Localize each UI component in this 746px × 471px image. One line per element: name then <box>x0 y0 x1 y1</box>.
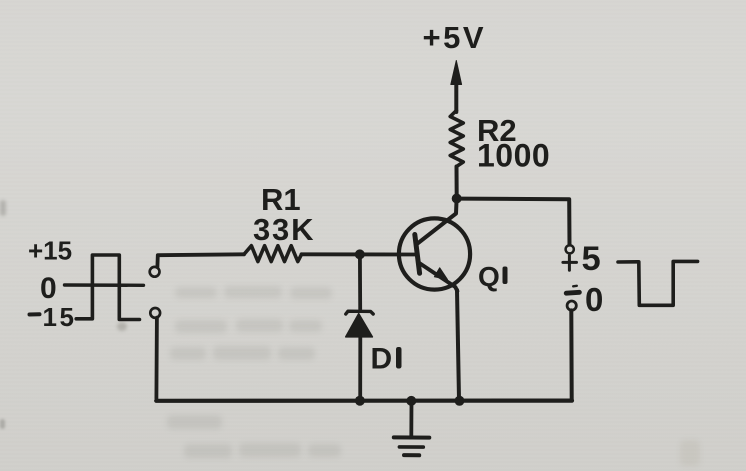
node: emitter-rail junction <box>455 396 465 406</box>
label -15 <box>30 302 77 332</box>
wire: diode to ground rail <box>358 337 362 400</box>
wire: collector node to output top terminal <box>460 199 570 245</box>
svg-text:+15: +15 <box>28 236 72 266</box>
label Q1 <box>478 261 508 292</box>
svg-text:0: 0 <box>585 281 603 318</box>
input waveform square pulse <box>76 255 139 320</box>
node: ground-rail junction <box>406 396 416 406</box>
svg-text:0: 0 <box>40 272 57 305</box>
input waveform zero line <box>65 283 144 287</box>
output terminal bottom <box>567 301 576 310</box>
wire: R2 to collector node <box>455 167 459 198</box>
wire: base node down to diode <box>358 254 362 309</box>
svg-text:15: 15 <box>43 302 77 332</box>
node: diode-rail junction <box>355 396 365 406</box>
resistor R2 <box>450 111 463 167</box>
wire: bottom ground rail <box>156 399 572 403</box>
wire: bottom terminal to ground rail (left riser) <box>154 318 158 399</box>
wire: top terminal stub to base rail <box>157 254 244 267</box>
transistor Q1 <box>399 199 470 291</box>
label D1 <box>371 343 402 376</box>
input terminal top <box>150 267 160 277</box>
supply arrow <box>451 61 462 113</box>
output terminal top <box>566 245 574 253</box>
diode D1 <box>346 311 374 337</box>
output waveform <box>618 261 698 305</box>
label - (output polarity) <box>566 286 579 293</box>
wire: emitter down to rail <box>457 290 459 399</box>
svg-text:33K: 33K <box>253 212 315 247</box>
svg-text:5: 5 <box>582 240 601 278</box>
node: collector junction <box>452 194 462 204</box>
svg-text:Q: Q <box>478 261 500 292</box>
node: base junction <box>355 249 365 259</box>
resistor R1 <box>244 246 302 262</box>
wire: R1 to transistor base <box>302 252 417 256</box>
wire: bottom output terminal down to rail <box>569 310 573 399</box>
bleed-through smudges <box>175 287 217 298</box>
label + (output polarity) <box>563 256 577 271</box>
svg-text:1000: 1000 <box>477 138 550 174</box>
svg-text:D: D <box>371 343 393 376</box>
input terminal bottom <box>150 308 160 318</box>
ground <box>394 401 430 455</box>
svg-text:+5V: +5V <box>423 20 487 55</box>
